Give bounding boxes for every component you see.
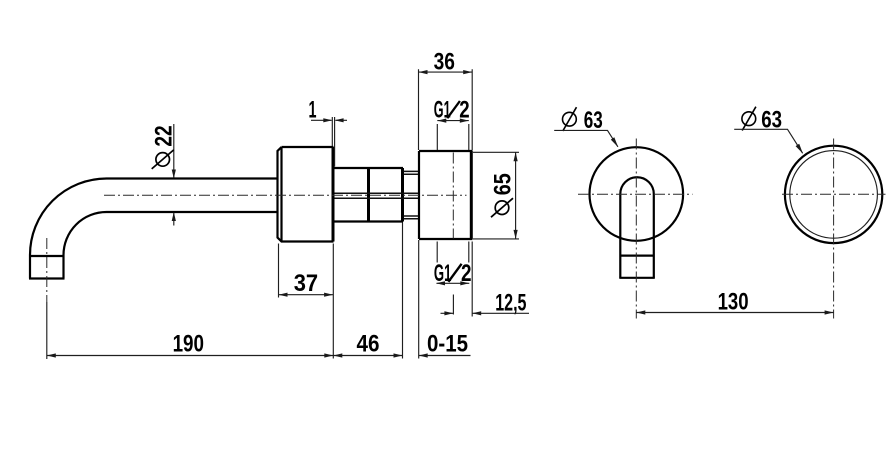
mouth cap line	[30, 255, 64, 257]
front view right inner circle	[790, 151, 878, 239]
svg-text:G1: G1	[434, 97, 451, 124]
right crosshair	[782, 193, 886, 195]
mouth vertical centerline	[46, 238, 48, 302]
leader d63 right	[734, 129, 802, 153]
svg-text:12,5: 12,5	[495, 290, 526, 317]
dim d65 line + arrows	[515, 152, 517, 239]
spout tube bottom edge	[107, 211, 278, 213]
mouth bottom edge	[29, 277, 65, 279]
dim 37 line + ext + arrows	[279, 294, 334, 296]
spout outer arc + mouth left edge	[30, 179, 107, 279]
front view tube cap line	[620, 255, 654, 257]
spout tube top edge	[107, 177, 278, 179]
horizontal centerline	[104, 194, 467, 196]
svg-text:1: 1	[309, 96, 317, 123]
G1/2 top arrow	[437, 120, 469, 122]
left crosshair	[578, 193, 693, 195]
wall cylinder right edge (thick)	[470, 151, 473, 239]
svg-text:65: 65	[490, 173, 517, 195]
wall plane centerline (vertical dash-dot in cylinder)	[452, 153, 454, 239]
svg-text:46: 46	[357, 330, 380, 357]
flange right edge (thick)	[332, 147, 335, 242]
supply tube lines	[335, 193, 420, 198]
svg-text:37: 37	[294, 270, 318, 297]
wall cylinder outline	[419, 151, 473, 239]
label d63 right	[742, 112, 756, 126]
leader d63 left	[554, 130, 618, 146]
svg-text:0-15: 0-15	[427, 330, 468, 357]
svg-text:36: 36	[434, 48, 455, 75]
dim 36 line + ext + arrows	[419, 71, 473, 73]
front view tube	[620, 177, 654, 278]
neck thread lines top	[404, 171, 420, 174]
G1/2 bottom arrow	[437, 282, 470, 284]
front view tube bottom	[619, 277, 655, 279]
label d22 (rotated)	[150, 125, 177, 169]
front view right outer circle	[785, 146, 882, 243]
dim d65 ext lines	[473, 152, 519, 239]
front view left circle	[590, 147, 684, 241]
neck thread lines bottom	[404, 216, 420, 219]
svg-text:190: 190	[173, 330, 204, 357]
bottom chain ext lines	[333, 223, 418, 359]
flange outline	[278, 147, 334, 242]
body outline	[335, 168, 404, 222]
dim 1 lines + arrows	[311, 119, 347, 121]
spout inner arc + mouth right edge	[64, 212, 107, 279]
svg-text:130: 130	[718, 289, 749, 316]
body divider (thick)	[367, 168, 370, 222]
body right edge (thick)	[401, 168, 404, 222]
dim 12,5 lines + arrows	[441, 312, 530, 314]
dim d22 line + arrows	[173, 124, 175, 226]
flange inner edge line	[280, 147, 282, 242]
label d65 (rotated)	[490, 173, 517, 217]
svg-text:22: 22	[150, 125, 177, 146]
label d63 left	[563, 112, 577, 126]
mouth centerline extension	[46, 302, 48, 359]
